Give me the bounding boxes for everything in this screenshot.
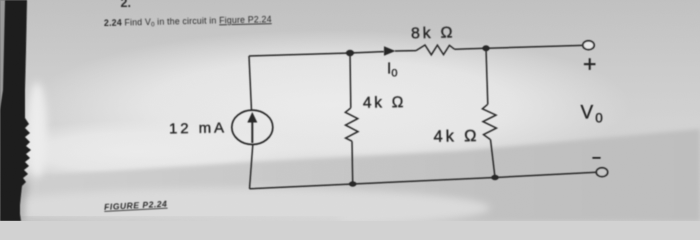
terminal - (open circle bottom right) xyxy=(596,168,607,177)
current arrow inside source xyxy=(247,112,257,143)
terminal + (open circle top right) xyxy=(583,41,594,50)
bright centre glow xyxy=(30,30,630,180)
wire: node A to arrow then 8k resistor start xyxy=(350,52,384,53)
current source I1 circle xyxy=(232,110,273,144)
minus sign xyxy=(592,157,600,159)
resistor R3 4k vertical zigzag xyxy=(482,104,496,139)
wire: right branch top segment xyxy=(486,48,488,104)
black book-spine strip left edge xyxy=(0,0,31,221)
wire: resistor to node B xyxy=(455,47,487,50)
highlight along page edge xyxy=(27,82,47,178)
wire: arrow tip to resistor xyxy=(395,50,416,52)
wire: node B to top terminal xyxy=(486,45,583,48)
node A junction dot xyxy=(346,50,354,56)
wire: bottom rail xyxy=(250,172,597,189)
grey wisp along lower spine edge xyxy=(17,178,28,221)
wire: right branch bottom segment xyxy=(491,140,496,178)
node C junction dot (bottom middle) xyxy=(349,181,356,186)
wire: middle branch bottom segment xyxy=(351,141,354,184)
wire: left branch bottom segment xyxy=(250,145,253,189)
problem statement header xyxy=(104,14,272,29)
darker fold region bottom-right xyxy=(0,129,700,221)
wire: left branch top segment xyxy=(249,56,252,111)
current direction arrow I0 on top wire xyxy=(384,46,396,55)
resistor R1 8k horizontal zigzag xyxy=(416,45,455,55)
wire: middle branch top segment xyxy=(349,53,352,108)
node B junction dot xyxy=(482,45,489,51)
grey sliver top-left of spine xyxy=(0,0,5,110)
plus sign xyxy=(584,58,596,70)
bright band lower-left xyxy=(0,120,310,184)
resistor R2 4k vertical zigzag xyxy=(345,108,358,141)
figure caption FIGURE P2.24 xyxy=(104,199,168,212)
shadow along very bottom edge left xyxy=(0,218,340,221)
node D junction dot (bottom right) xyxy=(491,175,498,180)
lighter wash bottom-left xyxy=(0,188,490,228)
wire: top-left to node A xyxy=(249,53,350,56)
